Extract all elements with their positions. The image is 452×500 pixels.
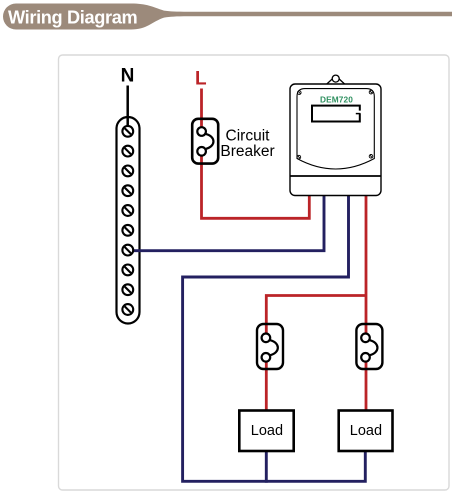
svg-text:DEM720: DEM720 (320, 95, 353, 105)
terminal strip TB1 body (117, 117, 140, 324)
load 2 (339, 411, 393, 452)
wire load 1 to neutral bus (navy) (265, 450, 268, 483)
wire L to circuit breaker (red) (200, 89, 203, 128)
fuse F2 (356, 324, 382, 369)
svg-text:Load: Load (251, 423, 283, 439)
wire fuse F2 to load 2 (red) (365, 362, 368, 411)
wire fuse F1 to load 1 (red) (265, 362, 268, 411)
wire branch to fuse F1 (red) (266, 296, 366, 334)
wire circuit breaker to meter terminal 1 (red) (202, 156, 310, 219)
terminal strip TB1 screws (122, 126, 133, 315)
svg-text:N: N (121, 66, 135, 87)
wire N to terminal strip (126, 86, 129, 128)
svg-text:Load: Load (350, 423, 382, 439)
svg-text:Breaker: Breaker (220, 143, 274, 160)
load 1 (239, 411, 293, 452)
energy meter DEM720 (290, 75, 381, 195)
svg-text:L: L (195, 69, 207, 90)
circuit breaker CB1 (192, 119, 218, 164)
wire meter terminal 2 to terminal strip (navy) (132, 195, 325, 251)
fuse F1 (257, 324, 283, 369)
header ribbon (3, 4, 452, 30)
svg-text:Wiring Diagram: Wiring Diagram (8, 8, 138, 28)
wire meter terminal 4 to fuse F2 (red) (365, 195, 368, 334)
wire meter terminal 3 to neutral bus (navy) (183, 195, 366, 481)
